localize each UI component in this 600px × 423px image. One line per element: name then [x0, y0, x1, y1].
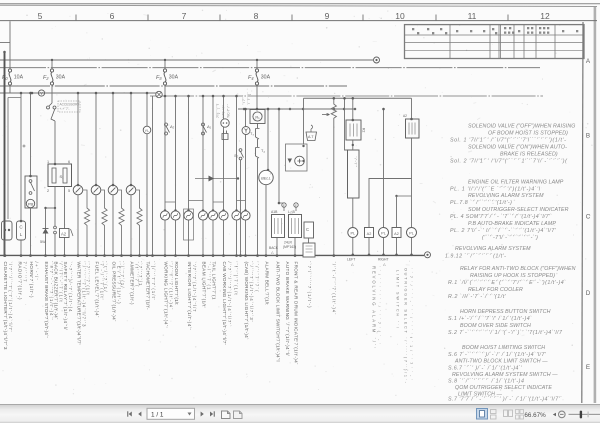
sender resistor R4 [136, 190, 142, 256]
stub L1 to F3 [164, 60, 166, 69]
ruler tick [507, 15, 509, 21]
branch bus L7 junction dots [243, 108, 246, 111]
horn PB [26, 199, 34, 207]
wire lamp feed 3 [188, 96, 190, 211]
svg-text:TAIL LIGHT'7`(1: TAIL LIGHT'7`(1 [211, 262, 216, 300]
svg-text:BEAM LIGHT'7`(1/t': BEAM LIGHT'7`(1/t' [201, 262, 206, 308]
lamp L6 [219, 211, 228, 220]
svg-text:PL. 1 'I/'/'/'('``E `'`'`'/'): PL. 1 'I/'/'/'('``E `'`'`'/')(1/t'-)4`'l [450, 187, 541, 193]
svg-text:R.1 `/l/`(`'``'`'`'`E'`('``'`: R.1 `/l/`(`'``'`'`'`E'`('``'`'7'/'``'`E'… [448, 280, 566, 286]
svg-text:`'-7`'`')/-'7`(1/t'-)4: `'-7`'`')/-'7`(1/t'-)4 [68, 262, 73, 313]
sensor box [303, 243, 315, 257]
relay box AIB [272, 215, 285, 238]
ruler baseline [0, 20, 597, 22]
svg-text:AUTO BRAKE WARNING `/`''7`(1/t: AUTO BRAKE WARNING `/`''7`(1/t'-)4`'l/ [285, 262, 290, 357]
svg-text:T₄: T₄ [261, 149, 265, 153]
wire switch to relay [54, 121, 56, 164]
ruler tick [362, 15, 364, 21]
wire lamp feed 2 [175, 96, 177, 211]
supply line L1 [0, 59, 373, 61]
vertical note NC-756 [242, 92, 251, 105]
svg-text:Sol. 2 '7l/'1'`' /'l/7"('``': Sol. 2 '7l/'1'`' /'l/7"('``'`'`1'`'`7'l/… [450, 159, 568, 165]
relay box LAB [289, 215, 302, 238]
svg-text:F: F [295, 204, 297, 208]
svg-text:F₂: F₂ [43, 75, 49, 81]
wire flasher feed [278, 109, 280, 203]
svg-text:`/'7'`'/``'7'('7`(1/t'-)4`'l/7: `/'7'`'/``'7'('7`(1/t'-)4`'l/7' [8, 262, 13, 332]
svg-text:'`t'/`'7`(1/: '`t'/`'7`(1/ [103, 262, 108, 293]
wire diode branch [45, 208, 47, 256]
lamp L2 [171, 211, 180, 220]
single page mode (selected) [477, 409, 488, 420]
dynamo plus [295, 156, 305, 166]
page number field [147, 408, 195, 419]
svg-text:S.8 `'`/'``'`'`'`'` /`1/`'(1/: S.8 `'`/'``'`'`'`'` /`1/`'(1/t'-)4 [448, 379, 524, 385]
svg-text:30A: 30A [261, 75, 271, 81]
zone letter column line [582, 22, 583, 403]
branch bus L7 [238, 108, 356, 110]
lamp L1 [160, 211, 169, 220]
bottom common bus [0, 254, 424, 256]
gauge G2 [91, 185, 101, 195]
svg-text:E: E [586, 364, 590, 371]
wire T4 drop [257, 158, 259, 256]
svg-text:``/`-`/``': ``/`-`/``' [354, 156, 358, 167]
gauge G1 [73, 185, 83, 195]
svg-text:('``'`-7'l/`-`'`'``'``'`'`-`'): ('``'`-7'l/`-`'`'``'``'`'`-`') [482, 235, 538, 241]
svg-text:FRONT & REAR DRUM INDICATE'7`(: FRONT & REAR DRUM INDICATE'7`(1/t'-)4` [293, 262, 298, 365]
svg-text:24LR: 24LR [284, 241, 293, 245]
meter X on bus [156, 91, 162, 97]
toolbar background [0, 404, 600, 423]
dash-dot supply line L2 [0, 67, 540, 69]
link wire [46, 207, 56, 209]
two-up mode icon [504, 410, 513, 417]
wire to relay unit [345, 98, 349, 150]
wire gauge feed 1 [77, 93, 79, 185]
ignition accessory switch [49, 103, 52, 106]
prev page button [138, 412, 141, 417]
svg-text:`'-/`''7`(1: `'-/`''7`(1 [206, 262, 211, 291]
zoom slider handle [580, 411, 582, 419]
svg-text:QOM OUTRIGGER SELECT INDICATE: QOM OUTRIGGER SELECT INDICATE [455, 385, 552, 391]
wire lamp feed 1 [164, 96, 166, 211]
svg-text:△: △ [383, 263, 386, 267]
svg-text:Y: Y [40, 91, 43, 96]
svg-text:SOLENOID VALVE ("OFF")WHEN RAI: SOLENOID VALVE ("OFF")WHEN RAISING [468, 124, 576, 130]
svg-text:+-+'`7'-: +-+'`7'- [60, 107, 70, 111]
svg-text:SOM OUTRIGGER-SELECT INDICATER: SOM OUTRIGGER-SELECT INDICATER [468, 207, 569, 213]
outrigger box right [406, 119, 420, 138]
svg-text:Δ₂: Δ₂ [169, 124, 175, 129]
link dot [395, 195, 397, 197]
svg-text:BELL: BELL [261, 176, 271, 181]
svg-text:PL. 4 SOM'7'7`/`'`- `'7``'`/': PL. 4 SOM'7'7`/`'`- `'7``'`/'`'(1/t'-)4`… [450, 214, 552, 220]
svg-text:CAB WORKING LIGHT'7`(1/t'-)4`': CAB WORKING LIGHT'7`(1/t'-)4`'l/7' [222, 262, 227, 345]
unit box C [304, 222, 314, 238]
svg-text:AMMETER'7`(1/t'-): AMMETER'7`(1/t'-) [129, 262, 134, 305]
wire relay LAB drop [294, 238, 296, 256]
svg-text:'`t`7'`'`': '`t`7'`'`' [242, 95, 246, 105]
svg-text:Δ₁: Δ₁ [206, 124, 212, 129]
svg-text:S.7 '7'7`/`'`-`'``'`'``' )/`-: S.7 '7'7`/`'`-`'``'`'``' )/`-` /`1/`'(1/… [448, 397, 562, 403]
sender resistor R1 [83, 190, 90, 256]
buzzer unit A2 [60, 229, 70, 238]
svg-text:C: C [306, 227, 309, 232]
svg-text:WATER TEMPERATURE'7`(1/t'-)4`': WATER TEMPERATURE'7`(1/t'-)4`'l/7' [76, 262, 81, 345]
ruler tick [435, 15, 437, 21]
svg-text:ENGINE OIL FILTER WARNING LAMP: ENGINE OIL FILTER WARNING LAMP [468, 180, 564, 186]
charge unit [286, 144, 308, 171]
meter Y2 [242, 127, 250, 135]
wire supply drop [4, 52, 6, 256]
svg-text:10: 10 [395, 11, 405, 21]
relay R1 [250, 110, 265, 124]
svg-text:30A: 30A [169, 75, 179, 81]
wire gauge feed 4 [130, 93, 132, 185]
gauge G4 [126, 185, 136, 195]
wire relay feed [352, 98, 354, 120]
diode D2 link [195, 178, 238, 180]
svg-text:10A: 10A [14, 75, 24, 81]
svg-text:5: 5 [68, 189, 70, 193]
dash-dot line L5 [150, 95, 543, 97]
terminal on L1 [374, 57, 380, 63]
wire spare feed [146, 93, 148, 256]
accessory line L3 [0, 85, 347, 87]
relay A2 [365, 228, 374, 238]
wire radio feed [20, 93, 22, 221]
sheet top border [0, 5, 597, 6]
svg-text:CIGARETTE LIGHTER'7`(1/t'-)4`': CIGARETTE LIGHTER'7`(1/t'-)4`'l/7'`3 [3, 262, 8, 350]
ruler tick [147, 15, 149, 21]
pilot Y on bus [38, 90, 44, 96]
test point cross [23, 145, 26, 148]
pilot YL [143, 126, 151, 134]
svg-text:PL: PL [350, 232, 355, 236]
zoom dropdown caret [553, 413, 556, 417]
svg-text:S₂: S₂ [234, 153, 239, 158]
svg-text:1 / 1: 1 / 1 [151, 411, 164, 418]
svg-text:2: 2 [47, 189, 49, 193]
svg-text:'`)/`'`7'7`(1/t': '`)/`'`7'7`(1/t' [151, 262, 156, 300]
lamp group box [184, 209, 194, 240]
svg-text:6: 6 [110, 11, 115, 21]
svg-text:A2: A2 [367, 232, 372, 236]
continuous mode icon [491, 410, 497, 420]
svg-text:6: 6 [68, 160, 70, 164]
svg-text:(MP'163): (MP'163) [283, 245, 296, 249]
notes column [445, 124, 576, 403]
fuse F₄ [255, 69, 258, 85]
ruler tick [291, 15, 293, 21]
svg-text:A2: A2 [61, 232, 67, 237]
svg-text:7: 7 [182, 11, 187, 21]
svg-text:'`7`''7`(1: '`7`''7`(1 [138, 262, 143, 287]
ruler tick [75, 15, 77, 21]
svg-text:EXHAUST BRAKE STOP'7`(1/t'-)4`: EXHAUST BRAKE STOP'7`(1/t'-)4`' [44, 262, 49, 338]
svg-text:Sol. 1 '7l/'1'`' /'`l/7"('`': Sol. 1 '7l/'1'`' /'`l/7"('`'`'`'7'l```'`… [450, 138, 566, 144]
AT box [306, 132, 317, 141]
svg-text:F₃: F₃ [156, 75, 162, 81]
starter variable resistor wire [331, 98, 336, 255]
svg-text:`/'`t`-/`'`'7`(1/t'-)4`: `/'`t`-/`'`'7`(1/t'-)4` [331, 262, 336, 316]
svg-text:'/`'/7'`-''7`(1/t: '/`'/7'`-''7`(1/t [58, 262, 63, 303]
parts table frame [405, 25, 585, 59]
sender resistor R3 [118, 190, 124, 256]
svg-text:'`/``''7`(1/t'-)4`'l/7'`3': '`/``''7`(1/t'-)4`'l/7'`3' [249, 262, 254, 322]
gauge G3 [108, 185, 118, 195]
fuse F₀ [8, 69, 11, 85]
svg-text:8: 8 [254, 11, 259, 21]
wire lamp feed 5 [212, 96, 214, 211]
pilot lamp PL8 [379, 228, 389, 238]
next page button [201, 412, 204, 417]
svg-text:/`'7``'/`''7`(1/t'-)4`'l/7'`: /`'7``'/`''7`(1/t'-)4`'l/7'` [227, 262, 232, 328]
svg-text:TACHOMETER'7`(1/t'-: TACHOMETER'7`(1/t'- [145, 262, 150, 310]
svg-text:FUEL LEVEL'7`(1/t'-)4`: FUEL LEVEL'7`(1/t'-)4` [94, 262, 99, 318]
wire lamp feed 8 [245, 109, 247, 211]
diode D1 [43, 229, 49, 234]
relay A2 [392, 228, 401, 238]
lamp L8 [241, 211, 250, 220]
flasher contacts F [282, 203, 286, 207]
svg-text:BRAKE IS RELEASED): BRAKE IS RELEASED) [500, 152, 558, 158]
bus end terminal [425, 252, 431, 258]
svg-text:'`f`'`)'7`(1/t: '`f`'`)'7`(1/t [233, 262, 238, 296]
svg-text:'`/`''7`(1/: '`/`''7`(1/ [120, 262, 125, 289]
svg-text:B: B [586, 133, 590, 140]
relay unit box tall [348, 150, 360, 198]
svg-text:LEFT: LEFT [347, 258, 355, 262]
wire bell feed [267, 109, 269, 170]
svg-text:7'/'`''7: 7'/'`''7 [22, 262, 27, 283]
L link wire [369, 138, 412, 227]
svg-text:D: D [586, 290, 591, 297]
svg-text:ANTI-TWO BLOCK LIMIT SWITCH'7`: ANTI-TWO BLOCK LIMIT SWITCH'7`(1/t'-)4`'… [275, 262, 280, 362]
svg-text:RELAY FOR ANTI-TWO BLOCK ("OFF: RELAY FOR ANTI-TWO BLOCK ("OFF")WHEN [460, 266, 576, 272]
wire gauge feed 2 [95, 93, 97, 185]
svg-text:RIGHT: RIGHT [378, 258, 389, 262]
svg-text:PL: PL [409, 232, 414, 236]
lamp L3 [184, 211, 193, 220]
sheet outer right border [594, 6, 597, 403]
svg-text:'`/``'f`''7`(1/t'-)4`: '`/``'f`''7`(1/t'-)4` [168, 262, 173, 311]
wire gauge feed 3 [112, 93, 114, 185]
fuse F₃ [163, 69, 166, 85]
cigarette lighter [2, 221, 13, 240]
first page button [127, 411, 132, 416]
wire relay out 2 [64, 187, 66, 256]
svg-text:`/``7'``'{``: `/``7'``'{`` [247, 92, 251, 105]
svg-text:PL.7.8 `'`/'``'`'`'`'(1/t'-): PL.7.8 `'`/'``'`'`'`'(1/t'-) [450, 200, 512, 206]
svg-text:'NC-7'`/``': 'NC-7'`/``' [227, 103, 231, 118]
next view icon [234, 411, 243, 419]
svg-text:'`7'/``'`''7`(1/t'-): '`7'/``'`''7`(1/t'-) [307, 262, 312, 309]
svg-text:A2: A2 [394, 232, 399, 236]
svg-text:R2: R2 [362, 128, 366, 132]
light switch S3 [165, 123, 170, 135]
pilot lamp PL7 [348, 228, 358, 238]
svg-text:S₁: S₁ [60, 174, 65, 179]
switch S0 [239, 149, 243, 160]
svg-text:RADIO'7`(1/t'-): RADIO'7`(1/t'-) [17, 262, 22, 300]
wire unit C drop [308, 238, 310, 256]
svg-text:S.6 7`-``'`'``'`)/`-`/' /`1/`: S.6 7`-``'`'``'`)/`-`/' /`1/`'(1/t'-)4`'… [448, 352, 547, 358]
svg-text:PL: PL [381, 232, 386, 236]
wire lamp feed 6 [223, 96, 225, 211]
svg-text:`'/7`''7`(1/t'-)4`'l/7: `'/7`''7`(1/t'-)4`'l/7 [192, 262, 197, 313]
svg-text:(CAB) WORKING LIGHT'7`(1/t'-)4: (CAB) WORKING LIGHT'7`(1/t'-)4` [244, 262, 249, 340]
svg-text:7'!'}'``'('`'7: 7'!'}'``'('`'7 [216, 104, 220, 118]
svg-text:BOOM HOIST LIMITING SWITCH: BOOM HOIST LIMITING SWITCH [462, 345, 545, 351]
svg-text:S.2 7`-``'`'`'``'`'/`1/`'(`-': S.2 7`-``'`'`'``'`'/`1/`'(`-'/'`)`' `'7(… [448, 330, 563, 336]
svg-text:△: △ [351, 263, 354, 267]
svg-text:BOOM OVER SIDE SWITCH: BOOM OVER SIDE SWITCH [460, 323, 531, 329]
radio unit C-L [17, 221, 26, 240]
svg-text:1.9.12 `'`/'``'`'`'`'`(1/t'-: 1.9.12 `'`/'``'`'`'`'`(1/t'- [445, 254, 506, 260]
svg-text:INTERIOR LIGHT'7`(1/t'-)4`': INTERIOR LIGHT'7`(1/t'-)4`' [187, 262, 192, 330]
svg-text:C: C [586, 214, 591, 221]
svg-text:/+`-'/': /+`-'/' [34, 262, 39, 280]
cluster captions [269, 241, 296, 255]
lamp L7 [232, 211, 241, 220]
branch bus L6 [304, 97, 412, 99]
relay unit box upper [346, 120, 361, 140]
contact T4 [256, 139, 260, 158]
svg-text:11: 11 [468, 11, 477, 21]
svg-text:SOLENOID VALVE ("ON")WHEN AUTO: SOLENOID VALVE ("ON")WHEN AUTO- [468, 145, 567, 151]
svg-text:F: F [283, 204, 285, 208]
prev view icon [222, 411, 231, 419]
contact on wire 55 [54, 226, 57, 229]
contact T3 [256, 124, 260, 140]
svg-text:66.67%: 66.67% [524, 412, 546, 419]
light switch S4 [202, 123, 207, 135]
svg-text:F₄: F₄ [248, 75, 254, 81]
pilot lamp PL4 [407, 228, 417, 238]
svg-text:R.2 `/l/`-'7`-`/`'`'(1/t': R.2 `/l/`-'7`-`/`'`'(1/t' [448, 294, 507, 300]
last page button [210, 411, 215, 416]
wire lamp feed 7 [236, 96, 238, 211]
lamp pair links [165, 201, 246, 203]
plug [222, 131, 228, 140]
wire lamp feed 4 [202, 96, 204, 211]
svg-text:30A: 30A [56, 75, 66, 81]
svg-text:'``*'t`-'`/`': '``*'t`-'`/`' [222, 105, 226, 118]
relay output wire [54, 187, 56, 227]
svg-text:L△B: L△B [288, 210, 295, 214]
svg-text:SAFETY RELAY'7`(1/t'-)4`'l/: SAFETY RELAY'7`(1/t'-)4`'l/ [63, 262, 68, 331]
svg-text:WORKING LIGHT'7`(1/t'-)4`': WORKING LIGHT'7`(1/t'-)4`' [163, 262, 168, 328]
diode D3 [288, 159, 293, 164]
svg-text:BACK BUZZER'7`(1/t'-)4`: BACK BUZZER'7`(1/t'-)4` [53, 262, 58, 320]
horn button switch box [25, 176, 37, 208]
svg-text:REVOLVING ALARM SYSTEM: REVOLVING ALARM SYSTEM [468, 193, 544, 199]
table header characters [412, 27, 578, 34]
svg-text:'`#'7`'-`-`''7`(1/t'-)4`': '`#'7`'-`-`''7`(1/t'-)4`' [49, 262, 54, 320]
svg-text:T₃: T₃ [250, 132, 254, 136]
accessory switch label box [58, 101, 80, 112]
svg-text:5W: 5W [40, 240, 46, 244]
svg-text:S.1 /+`-'/`'`l``'7`'/' /`1/`': S.1 /+`-'/`'`l``'7`'/' /`1/`'(1/t'-)4` [448, 316, 532, 322]
wire spare 2 [152, 96, 154, 256]
svg-text:REVOLVING ALARM SYSTEM SWITCH: REVOLVING ALARM SYSTEM SWITCH — [452, 372, 558, 378]
fuse F₂ [50, 69, 53, 85]
lamp L5 [208, 211, 217, 220]
small captions LEFT RIGHT [347, 258, 389, 267]
zoom slider track [569, 414, 600, 415]
svg-text:OIL PRESSURE'7`(1/t'-)4`: OIL PRESSURE'7`(1/t'-)4` [111, 262, 116, 322]
svg-text:OUTRIGGER SELECT `/`'`'`(7'`)/: OUTRIGGER SELECT `/`'`'`(7'`)/1`- [404, 268, 408, 384]
svg-text:ALARM BELL'7`(1/t: ALARM BELL'7`(1/t [264, 262, 269, 306]
wire relay AIB drop [276, 238, 278, 256]
accessory bus L4 [0, 92, 162, 94]
svg-text:ROOM LIGHT'7`(1/t: ROOM LIGHT'7`(1/t [174, 262, 179, 306]
svg-text:ANTI-TWO BLOCK LIMIT SWITCH —: ANTI-TWO BLOCK LIMIT SWITCH — [454, 359, 548, 365]
wire outrigger feed [411, 98, 413, 119]
lamp L4 [198, 211, 207, 220]
sender resistor R2 [101, 190, 107, 256]
svg-text:RELAY FOR COOLER: RELAY FOR COOLER [468, 287, 523, 293]
svg-text:9: 9 [325, 11, 330, 21]
svg-text:HORN'7`(1/t'-): HORN'7`(1/t'-) [29, 262, 34, 298]
svg-text:PL. 2 7'l/`-`' l/``'`l``'`-``: PL. 2 7'l/`-`' l/``'`l``'`-``'`'`'(1/t'-… [450, 228, 557, 234]
svg-text:ACCESSORY: ACCESSORY [60, 103, 81, 107]
svg-text:1: 1 [47, 160, 49, 164]
wire S2 drop [240, 160, 242, 256]
relay S1 box [48, 164, 72, 187]
svg-text:5: 5 [38, 11, 43, 21]
slider tick [588, 412, 589, 418]
zoom out button [559, 411, 566, 418]
svg-text:OF BOOM HOIST IS STOPPED): OF BOOM HOIST IS STOPPED) [488, 131, 568, 137]
feed wire from left into F0 [0, 21, 10, 69]
two-up continuous icon [516, 410, 524, 420]
svg-text:'`7'`'`'7`(1/t: '`7'`'`'7`(1/t [85, 262, 90, 296]
ruler tick [219, 15, 221, 21]
feed corner from bus L6 [303, 98, 305, 144]
drop from bus L7 [383, 109, 385, 227]
svg-text:YL: YL [145, 129, 150, 133]
vertical note cigarette supply [216, 103, 231, 118]
svg-text:HORN DEPRESS BUTTON SWITCH: HORN DEPRESS BUTTON SWITCH [460, 309, 551, 315]
svg-text:A2: A2 [403, 114, 407, 118]
alarm bell [259, 170, 273, 184]
svg-text:12: 12 [540, 11, 550, 21]
stub L1 to F2 [51, 60, 53, 69]
wire horn branch [30, 93, 32, 176]
svg-text:REVOLVING ALARM SYSTEM: REVOLVING ALARM SYSTEM [455, 246, 531, 252]
svg-text:A.T: A.T [308, 135, 314, 139]
left unit outline [8, 98, 21, 220]
top window border line [0, 3, 600, 4]
svg-text:'`/`'`7''7`(: '`/`'`7''7`( [254, 262, 259, 293]
svg-text:A1B: A1B [271, 210, 278, 214]
svg-text:RAISING UP HOOK IS STOPPED): RAISING UP HOOK IS STOPPED) [470, 273, 555, 279]
stub L1 to F4 [256, 60, 258, 69]
svg-text:S.6.7 `'``' )/`-` /`1/`'(1/t'-: S.6.7 `'``' )/`-` /`1/`'(1/t'-)4`' [448, 366, 523, 372]
power socket [221, 119, 229, 127]
